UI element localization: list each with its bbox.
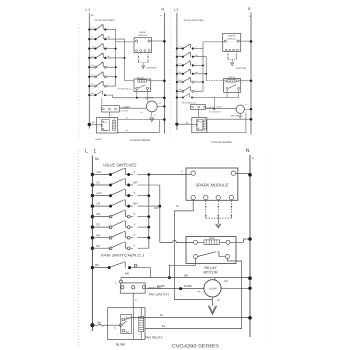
relay contact right wire / BL run bbox=[145, 259, 242, 329]
svg-text:Y: Y bbox=[133, 191, 135, 195]
mini B fan NC switch bbox=[176, 96, 178, 98]
mini A Y wire to spark module bbox=[116, 41, 135, 43]
svg-text:FAN SW.(N.C.): FAN SW.(N.C.) bbox=[182, 101, 196, 104]
mini B Y wire bbox=[198, 109, 200, 117]
svg-text:FAN SWITCH: FAN SWITCH bbox=[149, 293, 170, 297]
svg-text:Y: Y bbox=[133, 233, 135, 237]
svg-text:N: N bbox=[246, 148, 250, 154]
valve switch LF bbox=[91, 183, 94, 186]
svg-text:Y: Y bbox=[133, 170, 135, 174]
motor LO stub bbox=[214, 278, 216, 281]
L1 bus bbox=[91, 156, 93, 332]
BR collection wire bbox=[159, 185, 161, 242]
mini B Y collection bbox=[202, 42, 204, 91]
mini A motor ground bbox=[151, 112, 153, 118]
svg-text:IGNITORS: IGNITORS bbox=[146, 67, 157, 70]
svg-text:FAN SW.(N.C.): FAN SW.(N.C.) bbox=[118, 87, 132, 90]
svg-text:Y: Y bbox=[181, 170, 183, 174]
mini B BR wire to relay bbox=[206, 80, 223, 82]
svg-text:NC: NC bbox=[125, 331, 129, 334]
N bus (mini A) bbox=[163, 13, 165, 134]
valve switch RF bbox=[91, 247, 94, 250]
NC switch drop to run bbox=[149, 268, 151, 278]
mini A fan switch box bbox=[102, 106, 120, 112]
Y wire to spark module bbox=[149, 174, 191, 176]
mini A valve switch LLF bbox=[88, 28, 90, 30]
svg-text:CVG4390 SERIES: CVG4390 SERIES bbox=[172, 344, 220, 349]
BR wire to relay coil bbox=[160, 241, 194, 243]
svg-text:N: N bbox=[161, 7, 164, 12]
mini B Y wire to spark module bbox=[203, 41, 224, 43]
mini A Y wire bbox=[108, 112, 110, 118]
svg-text:LF: LF bbox=[96, 181, 100, 185]
svg-text:W: W bbox=[126, 116, 128, 119]
svg-text:LLF: LLF bbox=[96, 170, 101, 174]
Y collection wire bbox=[148, 175, 150, 249]
mini B motor LO to N bbox=[245, 108, 252, 110]
mini B fan relay box bbox=[192, 118, 207, 133]
svg-text:FAN SW.: FAN SW. bbox=[121, 109, 129, 112]
svg-text:W: W bbox=[160, 313, 163, 317]
relay contact left wire bbox=[169, 259, 195, 278]
mini B valve switch LR bbox=[176, 64, 178, 66]
mini A valve switch LF bbox=[88, 38, 90, 40]
mini A fan relay box bbox=[96, 118, 117, 133]
motor ground wire bbox=[212, 297, 214, 306]
svg-text:RF: RF bbox=[96, 244, 100, 248]
svg-text:VALVE SWITCHES: VALVE SWITCHES bbox=[184, 19, 204, 22]
mini A igniter leads bbox=[138, 54, 140, 63]
mini B spark module bbox=[223, 33, 241, 51]
mini A L terminal drop bbox=[101, 98, 103, 105]
svg-text:CF: CF bbox=[96, 223, 100, 227]
mini A BK feed bbox=[88, 123, 91, 126]
mini A Y collection bbox=[115, 30, 117, 87]
svg-text:BL: BL bbox=[126, 129, 128, 132]
mini A motor LO to N bbox=[157, 105, 164, 107]
svg-text:LO: LO bbox=[224, 279, 229, 283]
faint scan border left of top-left panel bbox=[78, 24, 80, 140]
svg-text:BL/BK: BL/BK bbox=[217, 106, 223, 109]
svg-text:L1: L1 bbox=[174, 7, 179, 12]
valve switch RR bbox=[91, 236, 94, 239]
svg-text:MODULE: MODULE bbox=[227, 37, 237, 40]
svg-text:BK: BK bbox=[97, 320, 101, 324]
faint scan border between top panels bbox=[169, 8, 171, 141]
igniter leads bbox=[205, 201, 207, 219]
relay contact bbox=[194, 255, 198, 259]
svg-text:FAN RELAY: FAN RELAY bbox=[145, 335, 164, 339]
valve switch LR bbox=[91, 204, 94, 207]
svg-text:VALVE SWITCHES: VALVE SWITCHES bbox=[95, 19, 115, 22]
mini A fan NC switch bbox=[88, 94, 90, 96]
mini A relay contact tap bbox=[136, 89, 138, 97]
BL/BK wire to motor bbox=[146, 288, 204, 290]
svg-text:C: C bbox=[114, 325, 116, 329]
wire spark module to N bbox=[236, 172, 250, 174]
mini A relay to N bbox=[151, 80, 165, 82]
svg-text:24840: 24840 bbox=[208, 237, 215, 240]
svg-text:BK: BK bbox=[95, 263, 99, 267]
mini B motor ground bbox=[239, 113, 241, 115]
svg-text:IGNITORS: IGNITORS bbox=[236, 67, 247, 70]
mini A valve switch LR bbox=[88, 57, 90, 59]
valve switch CF bbox=[91, 225, 94, 228]
fan relay contacts bbox=[121, 315, 132, 334]
svg-text:Y: Y bbox=[133, 223, 135, 227]
mini B contact taps bbox=[226, 90, 228, 98]
mini A long run to N bbox=[106, 95, 164, 98]
svg-text:FAN SWITCH: FAN SWITCH bbox=[209, 111, 221, 114]
N bus (mini B) bbox=[250, 13, 252, 135]
mini B W wire to N bbox=[207, 118, 251, 120]
valve switch CB bbox=[91, 215, 94, 218]
fan relay box bbox=[108, 308, 145, 340]
G wire from spark module bbox=[175, 200, 212, 300]
BK feed to fan relay bbox=[90, 323, 94, 327]
svg-text:N: N bbox=[248, 6, 251, 11]
svg-text:Y: Y bbox=[135, 298, 137, 302]
mini A spark module bbox=[134, 38, 152, 53]
mini B fan switch box bbox=[191, 105, 206, 110]
svg-text:CVG4380 SERIES: CVG4380 SERIES bbox=[130, 139, 151, 142]
svg-text:BL/BK: BL/BK bbox=[96, 138, 103, 141]
svg-text:HI BL/BK: HI BL/BK bbox=[121, 106, 130, 109]
mini A valve switch LLR bbox=[88, 47, 90, 49]
mini B BL wire bbox=[207, 113, 246, 133]
mini B BR collection bbox=[205, 57, 207, 81]
svg-text:L 1: L 1 bbox=[85, 149, 98, 155]
L1 bus (mini A) bbox=[88, 13, 90, 128]
mini B igniter leads bbox=[227, 52, 229, 59]
mini A valve switch RF bbox=[88, 85, 90, 87]
motor return to N bbox=[221, 287, 250, 289]
svg-text:SPARK: SPARK bbox=[139, 31, 147, 34]
svg-text:MODULE: MODULE bbox=[138, 34, 148, 37]
fan relay partition bbox=[133, 308, 135, 340]
mini B relay contacts bbox=[226, 87, 228, 89]
relay box bbox=[186, 237, 236, 264]
relay coil to N bbox=[230, 239, 250, 242]
relay coil bbox=[194, 240, 198, 244]
N bus bbox=[249, 155, 251, 337]
fan switch L terminal bbox=[120, 278, 122, 281]
svg-text:CB: CB bbox=[96, 212, 100, 216]
faint scan border left of bottom panel bbox=[77, 150, 79, 348]
mini A BL wire bbox=[118, 120, 160, 132]
W wire to N bbox=[125, 317, 251, 319]
mini B BL/BK wire to motor bbox=[206, 108, 237, 110]
ground under spark module bbox=[216, 224, 222, 228]
svg-text:Y: Y bbox=[133, 212, 135, 216]
mini A W wire to N bbox=[118, 119, 165, 121]
Y wire to fan relay bbox=[132, 293, 134, 308]
svg-text:BL: BL bbox=[162, 324, 166, 328]
svg-text:SPARK MODULE: SPARK MODULE bbox=[195, 182, 228, 187]
faint scan border right of bottom panel bbox=[267, 155, 269, 345]
mini B valve switch LLF bbox=[176, 47, 178, 49]
mini A BR wire to relay bbox=[125, 80, 135, 82]
mini B valve switch RF bbox=[176, 73, 178, 75]
svg-text:1/20HP: 1/20HP bbox=[208, 287, 217, 290]
svg-text:LLR: LLR bbox=[96, 191, 102, 195]
fan NC switch bbox=[91, 266, 94, 269]
svg-text:*: * bbox=[252, 157, 254, 162]
mini B valve switch LF bbox=[176, 56, 178, 58]
mini A ground arrow bbox=[141, 65, 145, 68]
mini A spark module to N bbox=[150, 40, 164, 42]
svg-text:MOTOR: MOTOR bbox=[203, 270, 218, 275]
svg-text:BL/BK: BL/BK bbox=[157, 284, 165, 288]
mini A BR collection bbox=[124, 39, 126, 81]
mini A valve switch CF bbox=[88, 76, 90, 78]
mini B spark module to N bbox=[239, 40, 251, 42]
mini B relay coil to N bbox=[239, 80, 251, 82]
long run wire to N bbox=[121, 277, 250, 279]
mini B tap to motor line bbox=[213, 98, 215, 109]
mini B motor bbox=[236, 105, 244, 113]
mini A valve switch CB bbox=[88, 66, 90, 68]
spark module U1 bbox=[186, 168, 238, 200]
L1 bus (mini B) bbox=[176, 13, 178, 130]
svg-text:CVG4280 SERIES: CVG4280 SERIES bbox=[211, 141, 232, 144]
mini A relay contact to motor bbox=[147, 89, 149, 101]
chassis ground arrow bbox=[208, 306, 216, 315]
svg-text:Y: Y bbox=[133, 244, 135, 248]
mini B long run bbox=[193, 97, 239, 99]
svg-text:HI: HI bbox=[198, 290, 201, 294]
svg-text:L1: L1 bbox=[85, 7, 90, 12]
mini B valve switch GR bbox=[176, 90, 178, 92]
svg-text:MOTOR: MOTOR bbox=[231, 114, 240, 117]
svg-text:MOTOR: MOTOR bbox=[145, 97, 154, 100]
svg-text:NO: NO bbox=[125, 317, 129, 320]
motor M1 bbox=[204, 280, 221, 297]
svg-text:SPARK: SPARK bbox=[228, 35, 236, 38]
mini B ground arrow bbox=[230, 62, 234, 65]
fan relay coil bbox=[139, 316, 144, 331]
mini B BK feed bbox=[175, 123, 178, 126]
svg-text:FAN SWITCH(N.C.): FAN SWITCH(N.C.) bbox=[101, 253, 145, 257]
fan switch box bbox=[120, 283, 145, 293]
mini B valve switch RR bbox=[176, 81, 178, 83]
valve switch LLR bbox=[91, 194, 94, 197]
svg-text:BL/BK: BL/BK bbox=[184, 284, 192, 288]
svg-text:VALVE SWITCHES: VALVE SWITCHES bbox=[103, 163, 137, 168]
svg-text:BL/BK: BL/BK bbox=[116, 342, 126, 346]
valve switch LLF bbox=[91, 173, 94, 176]
mini A BL/BK wire to motor bbox=[120, 107, 147, 109]
